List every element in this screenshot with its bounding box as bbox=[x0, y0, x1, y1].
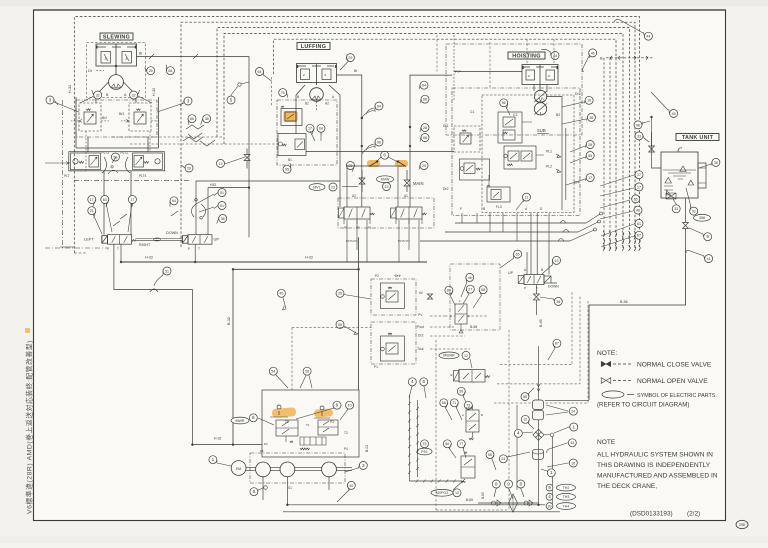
svg-text:Z: Z bbox=[548, 74, 550, 78]
pilot bus line 3 bbox=[217, 28, 630, 250]
svg-text:64: 64 bbox=[172, 199, 176, 203]
svg-text:MVL: MVL bbox=[313, 185, 320, 189]
wire center box bbox=[233, 268, 359, 270]
compensator box lower bbox=[371, 322, 416, 364]
tank body bbox=[661, 152, 698, 198]
svg-text:9: 9 bbox=[706, 234, 709, 239]
svg-text:28: 28 bbox=[423, 126, 427, 130]
balloon 28a bbox=[586, 141, 594, 149]
svg-text:65: 65 bbox=[634, 197, 638, 201]
svg-text:P3 P2 P1: P3 P2 P1 bbox=[346, 239, 358, 243]
balloon 65b bbox=[514, 250, 522, 258]
balloon 32 left bbox=[94, 91, 102, 99]
balloon 58c bbox=[479, 286, 487, 294]
tank breather bbox=[665, 178, 671, 184]
svg-text:58: 58 bbox=[481, 288, 485, 292]
balloon 11a bbox=[523, 193, 531, 201]
balloon 63 bbox=[101, 196, 109, 204]
svg-text:11: 11 bbox=[525, 196, 529, 200]
balloon 64c bbox=[375, 102, 383, 110]
svg-text:61: 61 bbox=[637, 222, 641, 226]
svg-text:I2: I2 bbox=[450, 373, 453, 377]
svg-text:SLEWING: SLEWING bbox=[103, 34, 130, 40]
wire luffing Br riser bbox=[316, 101, 318, 110]
valve MWR P3 bbox=[320, 406, 324, 416]
svg-text:23: 23 bbox=[385, 185, 389, 189]
svg-text:13: 13 bbox=[219, 162, 223, 166]
svg-text:66: 66 bbox=[423, 136, 427, 140]
legend electric symbol bbox=[602, 391, 624, 398]
legend close valve symbol bbox=[601, 361, 606, 367]
svg-text:9: 9 bbox=[548, 485, 551, 490]
balloon 41 bbox=[705, 255, 713, 263]
tank side attachment bbox=[698, 163, 706, 188]
pilot bus line 1 bbox=[74, 17, 639, 254]
svg-text:B-02: B-02 bbox=[365, 445, 369, 452]
svg-text:EM: EM bbox=[236, 467, 241, 471]
label TH3 bbox=[546, 493, 553, 500]
svg-text:46: 46 bbox=[468, 276, 472, 280]
svg-text:H-33: H-33 bbox=[145, 256, 153, 260]
svg-text:P P: P P bbox=[455, 70, 461, 74]
balloon 59 bbox=[457, 387, 465, 395]
svg-text:P: P bbox=[524, 286, 526, 290]
label TH2 bbox=[546, 484, 553, 491]
slewing relief outer box bbox=[76, 97, 158, 148]
ellipse MVL bbox=[309, 184, 325, 191]
balloon 95 bbox=[283, 165, 291, 173]
section label TANK UNIT bbox=[676, 134, 719, 141]
ellipse MWHR bbox=[439, 352, 459, 359]
svg-text:B2: B2 bbox=[305, 102, 309, 106]
svg-text:PL1: PL1 bbox=[546, 150, 552, 154]
center dash drop bbox=[291, 328, 293, 391]
check valve row bbox=[492, 501, 496, 505]
svg-text:71: 71 bbox=[452, 401, 456, 405]
svg-text:B-32: B-32 bbox=[227, 317, 231, 325]
svg-text:63: 63 bbox=[103, 198, 107, 202]
svg-text:B: B bbox=[481, 413, 483, 417]
svg-text:PLT4: PLT4 bbox=[139, 174, 147, 178]
svg-text:66: 66 bbox=[190, 117, 194, 121]
wire 9 10 leaders bbox=[296, 408, 348, 420]
svg-text:9: 9 bbox=[336, 403, 339, 408]
balloon 88 bbox=[445, 286, 453, 294]
svg-text:1: 1 bbox=[550, 470, 553, 475]
wire slewing pilot lines bbox=[69, 131, 86, 171]
balloon 6 bbox=[381, 151, 389, 159]
diamond strainer bbox=[509, 494, 518, 512]
section label LUFFING bbox=[297, 43, 330, 50]
balloon 17a bbox=[88, 196, 96, 204]
balloon column x425 bbox=[420, 81, 428, 89]
wire B-32 riser bbox=[232, 269, 234, 444]
svg-text:F: F bbox=[460, 207, 462, 211]
ellipse MVPO2 bbox=[431, 489, 453, 496]
svg-text:PL2: PL2 bbox=[546, 165, 552, 169]
svg-text:MANUFACTURED AND ASSEMBLED IN: MANUFACTURED AND ASSEMBLED IN bbox=[597, 473, 718, 480]
balloon 23b bbox=[383, 183, 391, 191]
pilot dashdot under filters bbox=[74, 180, 190, 182]
wire updown risers bbox=[527, 252, 536, 315]
svg-text:P2: P2 bbox=[264, 442, 268, 446]
svg-text:C1: C1 bbox=[470, 110, 474, 114]
wire luffing internal bbox=[310, 131, 321, 141]
wire MWR leader bbox=[258, 418, 274, 425]
svg-text:17: 17 bbox=[130, 198, 134, 202]
balloon 16a bbox=[585, 96, 593, 104]
svg-text:65: 65 bbox=[168, 69, 172, 73]
balloon 17d bbox=[586, 174, 594, 182]
pump shafts bbox=[246, 467, 352, 470]
svg-text:64: 64 bbox=[377, 104, 381, 108]
pump dashdot box bbox=[250, 453, 345, 483]
balloon 6a bbox=[420, 378, 428, 386]
svg-text:64: 64 bbox=[319, 127, 323, 131]
svg-text:Tout: Tout bbox=[417, 347, 423, 351]
wire PV lines bbox=[292, 316, 445, 328]
balloon 4b bbox=[514, 429, 522, 437]
svg-text:5: 5 bbox=[230, 97, 233, 102]
svg-text:P1: P1 bbox=[374, 365, 378, 369]
balloon 1c bbox=[570, 423, 578, 431]
balloon 56c bbox=[443, 440, 451, 448]
luffing solenoid valve right bbox=[396, 207, 422, 219]
hoisting brake assembly bbox=[522, 65, 558, 85]
label TH4 bbox=[546, 503, 553, 510]
svg-text:1: 1 bbox=[573, 424, 576, 429]
svg-text:55: 55 bbox=[338, 323, 342, 327]
svg-text:96: 96 bbox=[636, 123, 640, 127]
svg-text:66: 66 bbox=[423, 98, 427, 102]
balloon 4a bbox=[408, 378, 416, 386]
svg-text:T1: T1 bbox=[306, 423, 310, 427]
orange arrow check left bbox=[367, 160, 380, 167]
wire pump suction bbox=[263, 477, 329, 505]
svg-text:THIS DRAWING IS INDEPENDENTLY: THIS DRAWING IS INDEPENDENTLY bbox=[597, 462, 711, 469]
svg-text:56: 56 bbox=[488, 453, 492, 457]
svg-text:MP3: MP3 bbox=[466, 406, 473, 410]
wire tank feed bbox=[651, 118, 653, 146]
slewing motor M bbox=[109, 75, 124, 90]
wire leaders valves bbox=[93, 203, 132, 234]
svg-text:66: 66 bbox=[588, 154, 592, 158]
pilot dash L1 bbox=[500, 292, 572, 365]
svg-text:FL3: FL3 bbox=[496, 205, 502, 209]
balloon 96a bbox=[500, 99, 508, 107]
svg-text:P2: P2 bbox=[344, 226, 348, 230]
balloon 27 bbox=[466, 285, 474, 293]
svg-text:23: 23 bbox=[331, 185, 335, 189]
svg-text:(2/2): (2/2) bbox=[687, 511, 700, 518]
svg-text:12: 12 bbox=[455, 491, 459, 495]
valve MWHR bbox=[459, 370, 485, 383]
balloon 35 bbox=[336, 289, 344, 297]
pump circles bbox=[256, 462, 271, 477]
svg-text:4: 4 bbox=[517, 431, 520, 436]
balloon 73 bbox=[464, 401, 472, 409]
wire balloon3 leaders bbox=[54, 102, 184, 112]
tank level triangle bbox=[688, 180, 694, 185]
svg-text:MVPO2: MVPO2 bbox=[436, 491, 449, 495]
wire valve row line bbox=[478, 502, 538, 504]
wire luffing mid risers bbox=[337, 75, 362, 207]
svg-text:58: 58 bbox=[442, 401, 446, 405]
valve LEFT-RIGHT bbox=[108, 235, 132, 245]
svg-text:C2: C2 bbox=[513, 113, 517, 117]
luffing solenoid valve left bbox=[344, 207, 370, 219]
svg-text:Z: Z bbox=[126, 57, 128, 61]
balloon 3b bbox=[359, 461, 367, 469]
balloon 54b bbox=[269, 367, 277, 375]
svg-text:24: 24 bbox=[501, 457, 505, 461]
svg-text:PS1: PS1 bbox=[421, 450, 428, 454]
svg-text:PV: PV bbox=[418, 313, 423, 317]
svg-text:MWR: MWR bbox=[236, 419, 245, 423]
svg-text:96: 96 bbox=[377, 140, 381, 144]
dash box bottom center bbox=[436, 340, 509, 510]
balloon 23a bbox=[346, 162, 354, 170]
balloon 12a bbox=[521, 415, 529, 423]
wire 6 leaders bbox=[376, 157, 398, 162]
balloon 32 right bbox=[130, 91, 138, 99]
svg-text:Br3: Br3 bbox=[119, 112, 124, 116]
svg-text:B: B bbox=[483, 207, 485, 211]
svg-text:TANK UNIT: TANK UNIT bbox=[682, 135, 714, 141]
svg-text:UP: UP bbox=[508, 271, 514, 275]
valve MP3 stack bbox=[466, 410, 479, 432]
wire luffing A-line bbox=[329, 85, 340, 207]
svg-text:B: B bbox=[297, 95, 299, 99]
valve MWR T1 bbox=[277, 405, 281, 415]
orange arrow check right bbox=[395, 160, 408, 167]
valve UP-DOWN bbox=[524, 275, 544, 285]
balloon 56b bbox=[303, 367, 311, 375]
wire stack vline bbox=[538, 346, 540, 475]
svg-text:45: 45 bbox=[672, 112, 676, 116]
stack accumulator 1 bbox=[533, 400, 544, 410]
svg-text:TH4: TH4 bbox=[563, 504, 570, 508]
dash box valve27 bbox=[450, 264, 500, 330]
svg-text:44: 44 bbox=[553, 54, 557, 58]
bus continuation chevrons bbox=[603, 231, 605, 237]
svg-text:Z: Z bbox=[105, 57, 107, 61]
svg-text:10: 10 bbox=[348, 404, 352, 408]
svg-text:T2: T2 bbox=[344, 431, 348, 435]
svg-text:96: 96 bbox=[502, 101, 506, 105]
svg-text:A2: A2 bbox=[325, 102, 329, 106]
svg-text:PLT3: PLT3 bbox=[102, 151, 110, 155]
svg-text:17: 17 bbox=[90, 198, 94, 202]
svg-text:TH3: TH3 bbox=[563, 495, 570, 499]
wire left return riser bbox=[114, 244, 192, 444]
svg-text:3: 3 bbox=[49, 97, 52, 102]
svg-text:41: 41 bbox=[707, 257, 711, 261]
balloon 96c bbox=[634, 121, 642, 129]
valve C1C2 bbox=[498, 112, 522, 143]
svg-text:P2: P2 bbox=[375, 274, 379, 278]
svg-text:UP: UP bbox=[214, 237, 220, 242]
balloon 21 bbox=[88, 207, 96, 215]
svg-text:Z: Z bbox=[528, 74, 530, 78]
svg-text:33: 33 bbox=[692, 210, 696, 214]
svg-text:64: 64 bbox=[422, 84, 426, 88]
electric line horizontal bbox=[409, 480, 462, 482]
svg-text:32: 32 bbox=[132, 93, 136, 97]
svg-text:4: 4 bbox=[411, 379, 414, 384]
svg-text:88: 88 bbox=[447, 289, 451, 293]
balloon 38b bbox=[203, 115, 211, 123]
electric line vertical2 bbox=[417, 400, 419, 477]
balloon 24a bbox=[569, 407, 577, 415]
svg-text:MWHR: MWHR bbox=[443, 354, 455, 358]
svg-text:A: A bbox=[462, 413, 464, 417]
svg-text:21: 21 bbox=[90, 209, 94, 213]
wire pilot junction bbox=[186, 125, 204, 129]
svg-text:P: P bbox=[188, 247, 190, 251]
balloon 45b bbox=[670, 109, 678, 117]
svg-text:4: 4 bbox=[548, 494, 551, 499]
svg-text:P1: P1 bbox=[368, 226, 372, 230]
filter junction arcs bbox=[102, 157, 130, 173]
svg-text:44: 44 bbox=[646, 35, 650, 39]
svg-text:T: T bbox=[117, 247, 119, 251]
balloon 64d bbox=[256, 68, 264, 76]
slewing relief valve right bbox=[129, 103, 151, 131]
balloon 33b bbox=[690, 207, 698, 215]
balloon 46a bbox=[466, 273, 474, 281]
svg-text:87: 87 bbox=[555, 342, 559, 346]
svg-text:MAIN: MAIN bbox=[413, 181, 423, 186]
svg-text:75: 75 bbox=[423, 442, 427, 446]
svg-text:B-65: B-65 bbox=[466, 498, 473, 502]
svg-text:B-65: B-65 bbox=[481, 492, 485, 499]
svg-text:8: 8 bbox=[252, 415, 255, 420]
balloon 33a bbox=[672, 205, 680, 213]
balloon 44b bbox=[644, 32, 652, 40]
svg-text:H-33: H-33 bbox=[305, 256, 313, 260]
wire left riser bbox=[74, 252, 86, 254]
balloon 29 bbox=[185, 164, 193, 172]
balloon 51a bbox=[218, 189, 226, 197]
wire filter inlet left bbox=[45, 162, 70, 164]
slewing dashed pilots bbox=[112, 136, 223, 138]
svg-text:64: 64 bbox=[258, 70, 262, 74]
svg-text:38: 38 bbox=[556, 300, 560, 304]
svg-text:65: 65 bbox=[516, 253, 520, 257]
balloon 1b bbox=[547, 469, 555, 477]
svg-text:H-32: H-32 bbox=[152, 88, 156, 96]
wire main internal bbox=[489, 112, 544, 185]
wire MWHR leader bbox=[470, 359, 472, 368]
svg-text:17: 17 bbox=[588, 176, 592, 180]
balloon 10 bbox=[346, 401, 354, 409]
svg-text:B1: B1 bbox=[288, 158, 292, 162]
svg-text:67: 67 bbox=[637, 234, 641, 238]
svg-text:95: 95 bbox=[285, 168, 289, 172]
bus junction line B bbox=[606, 57, 653, 59]
ellipse 398 bbox=[694, 214, 711, 221]
svg-text:B-58: B-58 bbox=[470, 325, 477, 329]
svg-text:32: 32 bbox=[96, 93, 100, 97]
svg-text:59: 59 bbox=[459, 390, 463, 394]
valve MVPO2 bbox=[461, 456, 475, 478]
svg-text:35: 35 bbox=[338, 292, 342, 296]
balloon 76 bbox=[279, 89, 287, 97]
filter PLT4 bbox=[133, 153, 163, 170]
wire hoisting motor leads bbox=[534, 85, 547, 92]
svg-text:38: 38 bbox=[221, 217, 225, 221]
luffing valve block frame bbox=[277, 100, 337, 165]
svg-text:9: 9 bbox=[507, 481, 510, 486]
wire MVL leader bbox=[342, 186, 358, 188]
balloon 25 bbox=[147, 67, 155, 75]
svg-text:77: 77 bbox=[459, 442, 463, 446]
svg-text:HOISTING: HOISTING bbox=[512, 53, 540, 59]
svg-text:T1: T1 bbox=[285, 420, 289, 424]
balloon 8d bbox=[517, 480, 525, 488]
balloon 64b bbox=[317, 124, 325, 132]
svg-text:45: 45 bbox=[591, 51, 595, 55]
svg-text:17: 17 bbox=[637, 173, 641, 177]
svg-text:51: 51 bbox=[220, 191, 224, 195]
svg-text:P3: P3 bbox=[356, 226, 360, 230]
slewing filter unit box bbox=[69, 152, 165, 171]
svg-text:NORMAL OPEN VALVE: NORMAL OPEN VALVE bbox=[637, 378, 708, 385]
svg-text:6: 6 bbox=[423, 379, 426, 384]
valve 27 vertical bbox=[455, 304, 467, 324]
left boundary dashdot bbox=[61, 100, 63, 248]
svg-text:16: 16 bbox=[587, 99, 591, 103]
needle valve slewing drain bbox=[244, 155, 250, 161]
wire main drops bbox=[462, 213, 549, 241]
valve mid stack bbox=[300, 437, 326, 445]
svg-text:76: 76 bbox=[281, 91, 285, 95]
svg-text:43: 43 bbox=[570, 441, 574, 445]
balloon 1a bbox=[209, 456, 217, 464]
svg-text:PLT: PLT bbox=[64, 174, 70, 178]
section label SLEWING bbox=[100, 33, 133, 40]
svg-text:1: 1 bbox=[212, 457, 215, 462]
svg-text:SYMBOL OF ELECTRIC PARTS.: SYMBOL OF ELECTRIC PARTS. bbox=[637, 393, 717, 399]
wire MP3 spring bbox=[469, 438, 473, 440]
pilot bus line 2 bbox=[181, 22, 635, 250]
svg-text:LEFT: LEFT bbox=[84, 237, 94, 242]
orange margin dot bbox=[25, 328, 30, 333]
main block inner box bbox=[482, 95, 574, 213]
wire luffing check line bbox=[347, 165, 404, 167]
svg-text:398: 398 bbox=[699, 216, 705, 220]
balloon 17c bbox=[306, 124, 314, 132]
svg-text:33: 33 bbox=[637, 134, 641, 138]
svg-text:54: 54 bbox=[271, 370, 275, 374]
wire slewing Br bbox=[137, 57, 250, 238]
svg-text:27: 27 bbox=[468, 288, 472, 292]
svg-text:P3: P3 bbox=[330, 420, 334, 424]
balloon 40 bbox=[347, 481, 355, 489]
pilot bus line 5 bbox=[274, 39, 617, 250]
svg-text:29: 29 bbox=[187, 166, 191, 170]
svg-text:29: 29 bbox=[422, 164, 426, 168]
svg-text:56: 56 bbox=[445, 442, 449, 446]
wire luffing valves to H33 bbox=[347, 220, 419, 262]
svg-text:H32: H32 bbox=[210, 183, 216, 187]
slewing relief valve left bbox=[79, 103, 101, 131]
valve Dr2 box bbox=[460, 159, 490, 180]
svg-text:8: 8 bbox=[520, 481, 523, 486]
svg-text:Z: Z bbox=[325, 73, 327, 77]
svg-text:25: 25 bbox=[149, 69, 153, 73]
